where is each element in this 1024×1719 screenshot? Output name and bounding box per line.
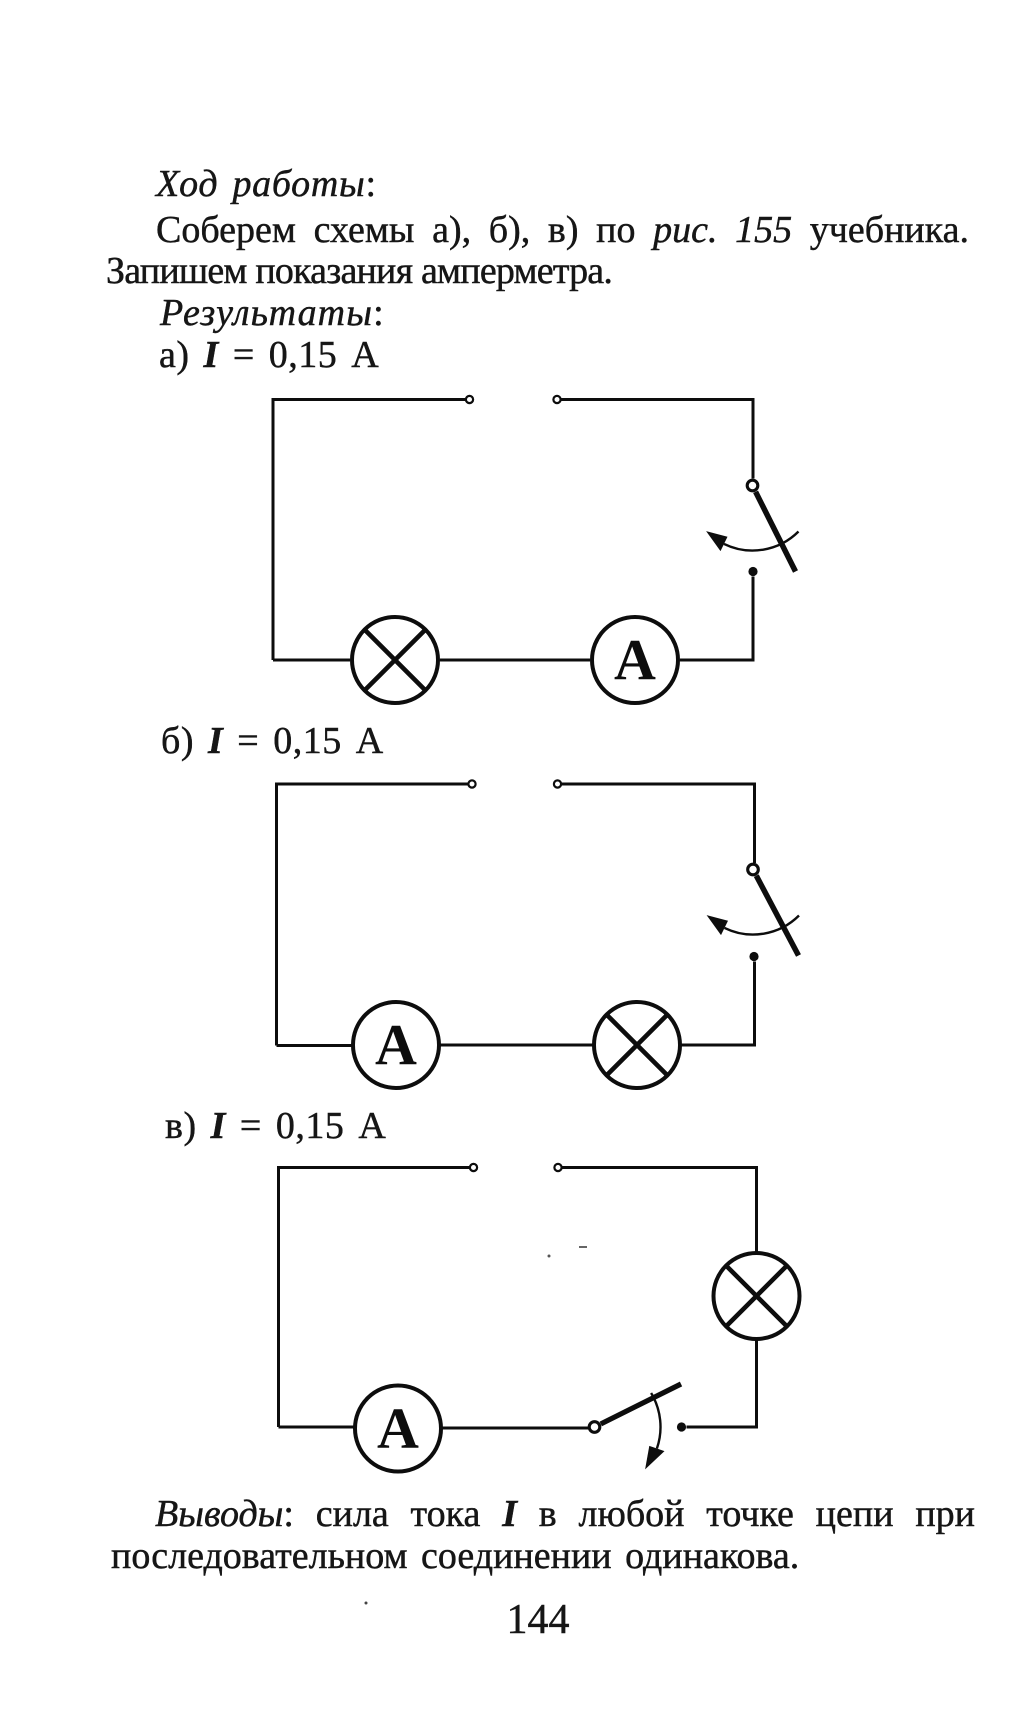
svg-text:A: A xyxy=(375,1012,417,1077)
circuit a: wire top-right xyxy=(561,400,754,479)
circuit b: wire bottom-right xyxy=(682,962,755,1046)
circuit a: switch moving contact dot xyxy=(748,567,757,576)
circuit a: wire bottom-right xyxy=(680,577,753,661)
svg-text:A: A xyxy=(377,1396,419,1461)
scan speck 2 xyxy=(579,1246,587,1248)
circuit c: switch contact dot xyxy=(677,1422,686,1431)
paragraph line: Запишем показания xyxy=(106,252,612,290)
circuit c: switch pivot contact xyxy=(589,1422,600,1433)
circuit a: wire bottom-left xyxy=(273,659,350,662)
circuit a: switch motion arrowhead xyxy=(706,531,727,551)
svg-text:A: A xyxy=(614,627,656,692)
circuit b: switch pivot contact xyxy=(748,864,759,875)
circuit a: battery terminal right xyxy=(553,396,560,403)
circuit a: switch motion arrow arc xyxy=(724,532,799,551)
circuit b: wire top-left xyxy=(277,784,469,1046)
page number 144 xyxy=(440,1601,636,1639)
circuit b: battery terminal right xyxy=(554,780,561,787)
circuit c: wire top-left xyxy=(279,1168,471,1428)
circuit a: lamp EL1 xyxy=(352,617,438,703)
circuit c: wire top-right xyxy=(562,1168,757,1253)
circuit b: lamp EL1 xyxy=(594,1002,680,1088)
circuit a: wire bottom-middle xyxy=(440,659,590,662)
circuit b: switch motion arrow arc xyxy=(725,916,800,935)
scan speck 3 xyxy=(365,1602,368,1605)
circuit c: switch motion arrowhead xyxy=(645,1446,664,1470)
circuit c: lamp EL1 xyxy=(714,1253,800,1339)
label b xyxy=(161,722,384,760)
heading: Ход работы xyxy=(156,165,377,203)
heading: Результаты xyxy=(160,294,385,332)
circuit c: wire bottom-left xyxy=(279,1426,355,1429)
label a xyxy=(159,336,379,374)
circuit a: switch pivot contact xyxy=(747,480,758,491)
circuit b: wire bottom-left xyxy=(277,1044,352,1047)
circuit b: wire top-right xyxy=(561,784,755,863)
paragraph line: Соберем схемы xyxy=(156,211,969,249)
circuit b: ammeter PA1 xyxy=(353,1002,439,1088)
circuit b: battery terminal left xyxy=(468,780,475,787)
circuit c: wire right-lower xyxy=(687,1340,757,1427)
circuit b: wire bottom-middle xyxy=(441,1044,593,1047)
circuit b: switch motion arrowhead xyxy=(707,915,728,935)
circuit a: switch blade xyxy=(756,492,796,572)
conclusion line 1 xyxy=(104,1495,975,1533)
conclusion line 2 xyxy=(111,1537,799,1575)
circuit c: ammeter PA1 xyxy=(355,1386,441,1472)
circuit b: switch blade xyxy=(756,876,798,956)
circuit c: battery terminal right xyxy=(554,1164,561,1171)
circuit c: battery terminal left xyxy=(470,1164,477,1171)
circuit c: wire bottom-middle xyxy=(442,1427,588,1430)
circuit a: battery terminal left xyxy=(466,396,473,403)
label v xyxy=(165,1107,386,1145)
circuit b: switch moving contact dot xyxy=(749,952,758,961)
circuit c: switch motion arrow arc xyxy=(651,1393,660,1449)
circuit a: ammeter PA1 xyxy=(592,617,678,703)
circuit c: switch blade xyxy=(601,1384,681,1424)
scan speck 1 xyxy=(548,1255,551,1258)
circuit a: wire top-left xyxy=(273,400,466,661)
